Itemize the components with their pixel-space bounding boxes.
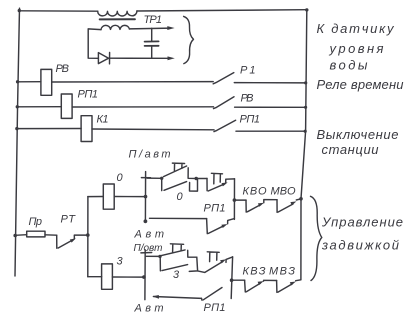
- arrow КВЗ blade tip: [258, 281, 264, 285]
- contact КВЗ fixed: [264, 279, 277, 282]
- contact КВЗ: [245, 280, 261, 292]
- svg-text:МВЗ: МВЗ: [269, 266, 295, 278]
- node button З left: [158, 255, 161, 258]
- svg-text:3: 3: [117, 256, 124, 268]
- pushbutton О NO right contact: [188, 168, 196, 179]
- svg-text:К1: К1: [97, 114, 109, 126]
- pushbutton З NO blade: [161, 250, 185, 256]
- pushbutton З NC lower path: [160, 256, 187, 271]
- node top-right corner: [305, 8, 308, 11]
- svg-text:Авт: Авт: [134, 229, 165, 241]
- wire to coil О: [88, 196, 103, 198]
- wire top horizontal: [19, 10, 97, 12]
- wire МВЗ to bus: [296, 279, 301, 282]
- pushbutton З NO right contact: [188, 250, 197, 257]
- brace Управление задвижкой: [311, 196, 322, 280]
- contact МВО: [277, 200, 293, 213]
- svg-text:П/авт: П/авт: [129, 149, 171, 161]
- pushbutton 2 left drop: [206, 179, 208, 191]
- wire to button О: [147, 177, 162, 179]
- pushbutton 4 actuator: [207, 252, 219, 262]
- contact КВО fixed: [264, 200, 277, 203]
- terminal tick upper: [141, 177, 150, 179]
- arrow РТ blade tip: [70, 238, 76, 242]
- wire МВО to bus: [296, 199, 301, 200]
- wire branch vertical: [87, 197, 89, 277]
- svg-text:0: 0: [117, 172, 124, 184]
- svg-text:уровня: уровня: [329, 41, 384, 56]
- wire row2 right: [235, 106, 306, 108]
- pushbutton О NC lower path: [162, 178, 198, 191]
- svg-text:П/овт: П/овт: [134, 243, 163, 254]
- capacitor C1 top lead: [151, 28, 153, 41]
- wire row1 middle: [52, 81, 214, 83]
- transformer TP1 core: [100, 18, 135, 20]
- contact РП1 blade: [214, 120, 236, 131]
- svg-text:воды: воды: [330, 58, 368, 73]
- svg-text:Выключение: Выключение: [317, 127, 399, 142]
- capacitor C1 bottom lead: [151, 46, 153, 58]
- capacitor C1 plates: [145, 41, 159, 46]
- svg-text:МВО: МВО: [271, 186, 296, 198]
- wire coil О to junction: [114, 196, 145, 198]
- wire left bus: [15, 8, 20, 276]
- pushbutton 2 right contact: [226, 179, 235, 182]
- svg-text:Р1: Р1: [240, 65, 256, 77]
- transformer TP1 secondary winding: [101, 25, 129, 29]
- pushbutton 4 right contact: [226, 257, 233, 263]
- wire junction vertical upper group: [144, 172, 146, 222]
- node КВЗ row left: [230, 278, 234, 282]
- wire row2 left: [17, 106, 61, 108]
- svg-text:Пр: Пр: [29, 216, 43, 228]
- wire to button З: [146, 255, 160, 257]
- contact МВЗ: [277, 281, 293, 293]
- arrow pushbutton 2 blade tip: [222, 182, 228, 186]
- wire to button 2: [196, 178, 207, 180]
- coil О (open): [103, 184, 114, 209]
- wire row3 middle: [92, 128, 214, 131]
- wire after fuse: [45, 234, 57, 236]
- svg-text:Реле времени: Реле времени: [317, 77, 404, 92]
- svg-text:3: 3: [173, 269, 180, 281]
- terminal tick lower: [141, 252, 152, 254]
- pushbutton О NO blade: [164, 166, 187, 177]
- relay coil РП1: [61, 94, 72, 118]
- wire row3 left: [17, 128, 81, 130]
- svg-text:станции: станции: [322, 142, 379, 157]
- wire coil З to junction: [112, 276, 143, 278]
- pushbutton О actuator: [172, 163, 184, 170]
- node row1 right: [304, 81, 307, 84]
- contact КВО: [246, 200, 261, 212]
- wire bracket to button 4: [198, 271, 205, 273]
- node branch split: [86, 233, 90, 237]
- coil З (close): [102, 264, 113, 289]
- svg-text:КВО: КВО: [243, 186, 267, 198]
- relay coil К1: [81, 116, 92, 142]
- arrow МВЗ blade tip: [290, 282, 296, 286]
- pushbutton З actuator: [170, 244, 183, 253]
- wire row1 left: [18, 81, 41, 83]
- node button О right: [195, 177, 198, 180]
- arrow КВО blade tip: [258, 203, 264, 207]
- brace for sensor outputs: [184, 16, 194, 63]
- contact РТ: [57, 235, 74, 248]
- node КВО row right: [299, 197, 303, 201]
- pushbutton 2 blade: [208, 184, 224, 191]
- svg-text:0: 0: [177, 191, 184, 203]
- svg-text:РП1: РП1: [204, 302, 226, 313]
- wire Авт upper: [150, 217, 207, 219]
- arrow МВО blade tip: [290, 201, 296, 205]
- arrow secondary top output: [167, 26, 174, 30]
- svg-text:РП1: РП1: [204, 203, 226, 215]
- wire secondary left side: [88, 29, 101, 58]
- wire secondary top: [129, 27, 170, 30]
- contact РП1 holding lower: [202, 288, 223, 301]
- wire feed left: [15, 234, 27, 237]
- wire top horizontal right part: [137, 10, 307, 11]
- wire secondary bottom: [110, 57, 171, 59]
- wire КВЗ row start: [232, 279, 245, 281]
- arrow Авт lower left: [152, 295, 159, 299]
- wire tall vertical upper: [233, 179, 235, 220]
- svg-text:РП1: РП1: [78, 89, 99, 101]
- svg-text:КВЗ: КВЗ: [243, 266, 266, 278]
- node feed bottom-left: [13, 234, 17, 238]
- node junction upper: [144, 195, 148, 199]
- arrow secondary bottom output: [168, 56, 175, 60]
- wire tall vertical lower: [231, 257, 232, 299]
- wire Авт lower: [154, 297, 202, 299]
- fuse Пр: [27, 231, 45, 237]
- pushbutton 4 blade: [205, 262, 223, 273]
- contact Р1 blade: [213, 73, 234, 84]
- svg-text:РТ: РТ: [61, 214, 77, 226]
- diode VD1 cathode bar: [109, 53, 111, 64]
- node КВО row left: [233, 198, 237, 202]
- svg-text:РВ: РВ: [56, 63, 70, 75]
- svg-text:ТР1: ТР1: [144, 14, 163, 26]
- contact РП1 holding fixed: [228, 219, 235, 224]
- svg-text:Управление: Управление: [321, 215, 403, 230]
- pushbutton 2 actuator: [211, 173, 222, 184]
- svg-text:К датчику: К датчику: [317, 21, 396, 36]
- wire right bus: [301, 10, 307, 280]
- contact РТ fixed side: [74, 235, 88, 239]
- node row3 right: [304, 130, 307, 133]
- svg-text:РВ: РВ: [241, 93, 254, 105]
- wire КВО row start: [234, 199, 246, 201]
- contact РП1 holding upper: [207, 219, 224, 234]
- node row1 left: [16, 80, 19, 83]
- wire row3 right: [236, 130, 305, 132]
- wire to coil З: [88, 276, 102, 278]
- node top-left corner: [18, 9, 21, 12]
- node row2 right: [304, 106, 307, 109]
- contact РВ blade: [214, 97, 235, 109]
- relay coil РВ: [41, 69, 52, 95]
- node button О left: [160, 177, 163, 180]
- svg-text:РП1: РП1: [240, 114, 261, 126]
- wire junction vertical lower group: [144, 250, 146, 300]
- transformer TP1 primary winding: [98, 11, 137, 16]
- svg-text:задвижкой: задвижкой: [321, 238, 399, 253]
- node junction vertical end: [144, 219, 148, 223]
- node row2 left: [16, 105, 19, 108]
- svg-text:Авт: Авт: [134, 303, 164, 313]
- wire row2 middle: [72, 106, 213, 108]
- arrow РП1 holding tip: [221, 224, 227, 228]
- node junction lower: [142, 275, 146, 279]
- diode VD1: [98, 53, 108, 64]
- pushbutton З bracket: [189, 257, 197, 271]
- wire row1 right: [234, 82, 305, 84]
- node row3 left: [15, 127, 18, 130]
- arrow pushbutton 4 blade tip: [220, 259, 226, 263]
